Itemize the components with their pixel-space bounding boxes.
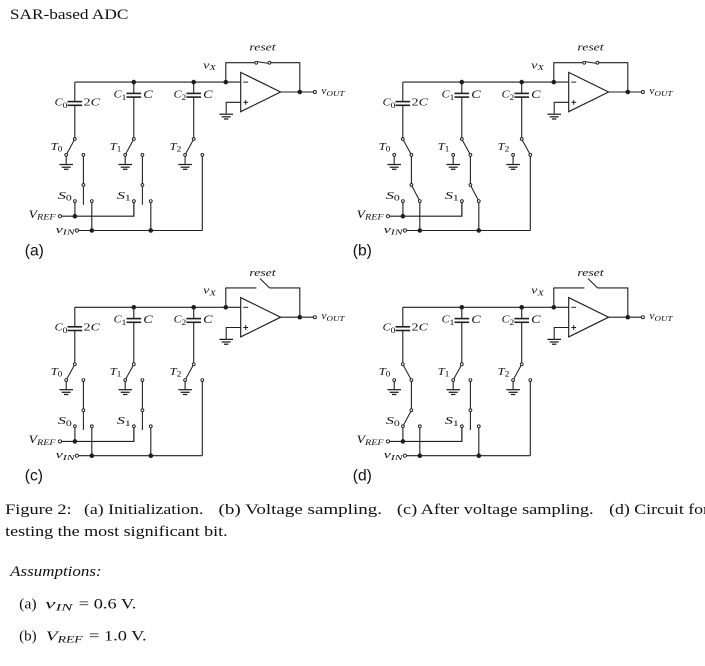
wire: C1 top stub (b)	[461, 82, 463, 93]
wire: C2 top stub (a)	[193, 82, 195, 93]
wire: S0 VREF contact stub (d)	[402, 428, 404, 442]
wire: reset switch to output node (feedback right) (c)	[270, 288, 300, 316]
capacitor C0 (a)	[68, 102, 83, 106]
svg-text:(c) After voltage sampling.: (c) After voltage sampling.	[397, 502, 594, 518]
switch S0 vIN-side contact (b)	[418, 200, 421, 203]
svg-text:= 0.6 V.: = 0.6 V.	[79, 597, 137, 613]
svg-text:C: C	[143, 313, 153, 326]
svg-text:reset: reset	[249, 43, 276, 54]
reset switch (closed) (b)	[583, 61, 599, 64]
ground symbol under T1 (d)	[446, 382, 460, 395]
svg-text:2C: 2C	[412, 97, 429, 109]
wire: T0 bus contact to S0 pole (a)	[82, 156, 84, 183]
svg-text:(b): (b)	[353, 243, 372, 260]
switch S1 lever (b)	[471, 186, 478, 199]
capacitor C2 (d)	[514, 319, 529, 323]
wire: vIN rail (b)	[407, 230, 531, 232]
switch T0 pole (a)	[73, 138, 76, 141]
svg-text:(a) Initialization.: (a) Initialization.	[84, 502, 203, 518]
svg-text:vX: vX	[531, 60, 544, 72]
switch T0 bus-side contact (b)	[410, 154, 413, 157]
wire: S0 VREF contact stub (c)	[74, 428, 76, 442]
switch S0 VREF-side contact (c)	[74, 425, 77, 428]
switch S1 lever (c)	[141, 412, 143, 430]
ground symbol under T1 (c)	[118, 382, 132, 395]
capacitor C0 (b)	[396, 102, 411, 106]
wire: reset switch to output node (feedback right) (b)	[599, 63, 628, 91]
switch T1 lever (c)	[126, 366, 133, 379]
junction: S1 vIN stub on vIN rail (c)	[149, 454, 153, 458]
wire: C0 top stub (a)	[74, 82, 76, 102]
wire: T2 bus contact down to vIN rail (c)	[201, 382, 203, 456]
switch S1 vIN-side contact (b)	[477, 200, 480, 203]
op-amp comparator (c)	[241, 298, 281, 337]
wire: T1 bus contact to S1 pole (c)	[141, 382, 143, 409]
svg-text:C: C	[203, 313, 213, 326]
switch T1 pole (b)	[460, 138, 463, 141]
svg-text:vIN: vIN	[384, 450, 404, 462]
terminal VREF (c)	[58, 440, 61, 443]
junction: S1 vIN stub on vIN rail (d)	[477, 454, 481, 458]
svg-text:C: C	[471, 88, 481, 101]
junction: C2 on top rail (b)	[520, 80, 524, 84]
switch S0 lever (c)	[82, 412, 84, 430]
wire: op-amp output to vOUT terminal (c)	[281, 316, 314, 318]
wire: S0 vIN contact stub (a)	[91, 203, 93, 231]
junction: S0 vIN stub on vIN rail (d)	[418, 454, 422, 458]
wire: top rail (node vX) of (b)	[403, 81, 569, 83]
wire: T2 bus contact down to vIN rail (b)	[529, 156, 531, 230]
svg-text:2C: 2C	[84, 322, 101, 334]
wire: T0 bus contact to S0 pole (c)	[82, 382, 84, 409]
wire: C1 top stub (c)	[133, 307, 135, 318]
wire: top rail (node vX) of (c)	[75, 306, 241, 308]
wire: S1 VREF contact stub (b)	[461, 203, 463, 217]
switch T1 bus-side contact (a)	[141, 154, 144, 157]
switch T0 bus-side contact (c)	[82, 379, 85, 382]
switch S0 pole (a)	[82, 184, 85, 187]
wire: vX to reset switch (feedback left) (b)	[554, 63, 583, 81]
ground symbol under T0 (b)	[387, 156, 401, 169]
switch S1 vIN-side contact (a)	[149, 200, 152, 203]
switch T2 ground-side contact (b)	[512, 154, 515, 157]
ground symbol under T2 (c)	[178, 382, 192, 395]
switch T2 ground-side contact (c)	[184, 379, 187, 382]
svg-text:reset: reset	[249, 268, 276, 279]
switch S1 vIN-side contact (c)	[149, 425, 152, 428]
switch S0 vIN-side contact (d)	[418, 425, 421, 428]
switch S1 pole (b)	[469, 184, 472, 187]
wire: S1 vIN contact stub (d)	[478, 428, 480, 456]
ground symbol under T0 (d)	[387, 382, 401, 395]
junction: C1 on top rail (c)	[132, 306, 136, 310]
wire: VREF rail (a)	[62, 203, 134, 217]
switch T2 lever (b)	[522, 140, 529, 153]
switch T2 pole (d)	[520, 363, 523, 366]
junction: C2 on top rail (d)	[520, 306, 524, 310]
switch S0 VREF-side contact (b)	[402, 200, 405, 203]
wire: C1 bottom stub to switch T1 (b)	[461, 97, 463, 138]
junction: C2 on top rail (c)	[192, 306, 196, 310]
switch S0 lever (b)	[412, 186, 419, 199]
wire: S0 VREF contact stub (a)	[74, 203, 76, 217]
reset switch (closed) (a)	[255, 61, 271, 64]
wire: C1 bottom stub to switch T1 (c)	[133, 322, 135, 363]
wire: C0 bottom stub to switch T0 (c)	[74, 331, 76, 363]
capacitor C1 (d)	[455, 319, 470, 323]
node: output / feedback junction (a)	[298, 90, 302, 94]
svg-text:(a): (a)	[25, 243, 44, 260]
wire: vIN rail (a)	[79, 230, 203, 232]
capacitor C2 (c)	[186, 319, 201, 323]
switch S1 VREF-side contact (b)	[461, 200, 464, 203]
switch T2 pole (a)	[192, 138, 195, 141]
wire: S1 VREF contact stub (c)	[133, 428, 135, 442]
wire: S0 VREF contact stub (b)	[402, 203, 404, 217]
switch S1 pole (c)	[141, 409, 144, 412]
terminal VREF (d)	[386, 440, 389, 443]
wire: S1 VREF contact stub (d)	[461, 428, 463, 442]
capacitor C0 (c)	[68, 327, 83, 331]
capacitor C2 (a)	[186, 93, 201, 97]
wire: reset switch to output node (feedback right) (d)	[598, 288, 628, 316]
ground symbol under T0 (a)	[59, 156, 73, 169]
wire: S1 vIN contact stub (a)	[150, 203, 152, 231]
node: output / feedback junction (b)	[626, 90, 630, 94]
svg-text:(b): (b)	[19, 628, 37, 644]
wire: T1 bus contact to S1 pole (b)	[469, 156, 471, 183]
terminal vOUT (b)	[641, 91, 644, 94]
switch S1 VREF-side contact (a)	[133, 200, 136, 203]
switch T0 pole (b)	[401, 138, 404, 141]
svg-text:(a): (a)	[19, 597, 37, 613]
svg-text:SAR-based ADC: SAR-based ADC	[10, 7, 128, 23]
svg-text:Assumptions:: Assumptions:	[9, 564, 102, 580]
svg-text:C: C	[203, 88, 213, 101]
wire: C2 bottom stub to switch T2 (d)	[521, 322, 523, 363]
terminal vOUT (a)	[313, 91, 316, 94]
ground symbol under T2 (a)	[178, 156, 192, 169]
junction: S1 vIN stub on vIN rail (a)	[149, 229, 153, 233]
wire: vIN rail (c)	[79, 455, 203, 457]
svg-text:(d): (d)	[353, 468, 372, 485]
wire: op-amp + input to ground (a)	[226, 102, 241, 106]
terminal vIN (d)	[403, 454, 406, 457]
junction: S0 vIN stub on vIN rail (c)	[90, 454, 94, 458]
svg-text:(c): (c)	[25, 468, 43, 485]
switch T2 pole (c)	[192, 363, 195, 366]
wire: C0 bottom stub to switch T0 (a)	[74, 105, 76, 137]
switch T2 pole (b)	[520, 138, 523, 141]
switch S1 pole (d)	[469, 409, 472, 412]
ground at op-amp + input (d)	[547, 331, 561, 344]
wire: VREF rail (d)	[390, 428, 462, 442]
switch S1 vIN-side contact (d)	[477, 425, 480, 428]
switch T1 ground-side contact (d)	[452, 379, 455, 382]
wire: C2 bottom stub to switch T2 (c)	[193, 322, 195, 363]
switch S1 lever (d)	[469, 412, 471, 430]
wire: T0 bus contact to S0 pole (d)	[410, 382, 412, 409]
switch T2 lever (a)	[186, 140, 193, 153]
wire: op-amp output to vOUT terminal (d)	[609, 316, 642, 318]
terminal vIN (c)	[75, 454, 78, 457]
junction: S0 vIN stub on vIN rail (b)	[418, 229, 422, 233]
capacitor C0 (d)	[396, 327, 411, 331]
svg-text:C: C	[471, 313, 481, 326]
svg-text:C: C	[531, 88, 541, 101]
terminal VREF (b)	[386, 215, 389, 218]
wire: top rail (node vX) of (d)	[403, 306, 569, 308]
switch T1 bus-side contact (d)	[469, 379, 472, 382]
switch S0 VREF-side contact (a)	[74, 200, 77, 203]
node: output / feedback junction (d)	[626, 315, 630, 319]
svg-text:C: C	[143, 88, 153, 101]
switch S0 pole (d)	[410, 409, 413, 412]
wire: op-amp + input to ground (d)	[554, 328, 569, 332]
junction: S0 VREF stub on VREF rail (d)	[401, 440, 405, 444]
capacitor C1 (b)	[455, 93, 470, 97]
wire: C2 bottom stub to switch T2 (a)	[193, 97, 195, 138]
switch T1 lever (d)	[454, 366, 461, 379]
wire: S1 vIN contact stub (c)	[150, 428, 152, 456]
ground symbol under T1 (b)	[446, 156, 460, 169]
junction: S0 VREF stub on VREF rail (b)	[401, 214, 405, 218]
wire: vX to reset switch (feedback left) (c)	[226, 288, 257, 306]
wire: vX to reset switch (feedback left) (d)	[554, 288, 585, 306]
node vX (c)	[224, 306, 228, 310]
terminal vOUT (c)	[313, 316, 316, 319]
junction: C1 on top rail (d)	[460, 306, 464, 310]
wire: T1 bus contact to S1 pole (d)	[469, 382, 471, 409]
junction: S1 vIN stub on vIN rail (b)	[477, 229, 481, 233]
op-amp comparator (d)	[569, 298, 609, 337]
wire: C0 top stub (c)	[74, 307, 76, 327]
wire: C1 bottom stub to switch T1 (d)	[461, 322, 463, 363]
switch T1 bus-side contact (c)	[141, 379, 144, 382]
wire: T2 bus contact down to vIN rail (d)	[529, 382, 531, 456]
wire: S0 vIN contact stub (d)	[419, 428, 421, 456]
wire: top rail (node vX) of (a)	[75, 81, 241, 83]
wire: C0 bottom stub to switch T0 (d)	[402, 331, 404, 363]
switch T1 pole (d)	[460, 363, 463, 366]
wire: VREF rail (c)	[62, 428, 134, 442]
svg-text:vX: vX	[531, 286, 544, 298]
wire: T2 bus contact down to vIN rail (a)	[201, 156, 203, 230]
switch T0 ground-side contact (c)	[65, 379, 68, 382]
node: output / feedback junction (c)	[298, 315, 302, 319]
terminal vIN (b)	[403, 229, 406, 232]
terminal vIN (a)	[75, 229, 78, 232]
svg-text:2C: 2C	[84, 97, 101, 109]
svg-text:vX: vX	[203, 286, 216, 298]
switch T0 ground-side contact (a)	[65, 154, 68, 157]
reset switch (open) (c)	[260, 279, 270, 288]
switch T1 pole (c)	[132, 363, 135, 366]
svg-text:vIN: vIN	[384, 225, 404, 237]
switch T2 bus-side contact (a)	[201, 154, 204, 157]
switch S0 lever (d)	[404, 412, 411, 425]
switch S0 VREF-side contact (d)	[402, 425, 405, 428]
capacitor C1 (c)	[127, 319, 142, 323]
wire: reset switch to output node (feedback right) (a)	[271, 63, 300, 91]
capacitor C1 (a)	[127, 93, 142, 97]
switch T1 pole (a)	[132, 138, 135, 141]
wire: C0 top stub (d)	[402, 307, 404, 327]
wire: C2 bottom stub to switch T2 (b)	[521, 97, 523, 138]
wire: op-amp output to vOUT terminal (b)	[609, 91, 642, 93]
switch T2 bus-side contact (d)	[529, 379, 532, 382]
svg-text:C: C	[531, 313, 541, 326]
switch T0 lever (b)	[404, 140, 411, 153]
wire: S1 VREF contact stub (a)	[133, 203, 135, 217]
op-amp comparator (b)	[569, 72, 609, 111]
svg-text:reset: reset	[577, 43, 604, 54]
reset switch (open) (d)	[588, 279, 598, 288]
switch T2 ground-side contact (a)	[184, 154, 187, 157]
switch T1 lever (a)	[126, 140, 133, 153]
switch T0 ground-side contact (b)	[393, 154, 396, 157]
terminal vOUT (d)	[641, 316, 644, 319]
wire: C1 top stub (d)	[461, 307, 463, 318]
wire: vX to reset switch (feedback left) (a)	[226, 63, 255, 81]
wire: C2 top stub (b)	[521, 82, 523, 93]
wire: T0 bus contact to S0 pole (b)	[410, 156, 412, 183]
wire: S0 vIN contact stub (b)	[419, 203, 421, 231]
terminal VREF (a)	[58, 215, 61, 218]
wire: C1 top stub (a)	[133, 82, 135, 93]
wire: C2 top stub (d)	[521, 307, 523, 318]
svg-text:(b) Voltage sampling.: (b) Voltage sampling.	[219, 502, 383, 518]
ground at op-amp + input (c)	[219, 331, 233, 344]
ground at op-amp + input (b)	[547, 106, 561, 119]
svg-text:vIN: vIN	[56, 450, 76, 462]
node vX (d)	[552, 306, 556, 310]
switch S0 vIN-side contact (a)	[90, 200, 93, 203]
svg-text:vX: vX	[203, 60, 216, 72]
switch T2 lever (d)	[514, 366, 521, 379]
svg-text:(d) Circuit for: (d) Circuit for	[609, 502, 705, 518]
switch S0 pole (c)	[82, 409, 85, 412]
switch T1 lever (b)	[463, 140, 470, 153]
ground at op-amp + input (a)	[219, 106, 233, 119]
switch T0 bus-side contact (a)	[82, 154, 85, 157]
switch T0 lever (a)	[67, 140, 74, 153]
wire: S1 vIN contact stub (b)	[478, 203, 480, 231]
ground symbol under T2 (b)	[506, 156, 520, 169]
ground symbol under T0 (c)	[59, 382, 73, 395]
wire: op-amp + input to ground (c)	[226, 328, 241, 332]
junction: S0 VREF stub on VREF rail (a)	[73, 214, 77, 218]
junction: S0 VREF stub on VREF rail (c)	[73, 440, 77, 444]
switch T0 bus-side contact (d)	[410, 379, 413, 382]
switch S1 VREF-side contact (d)	[461, 425, 464, 428]
switch T0 lever (d)	[404, 366, 411, 379]
svg-text:= 1.0 V.: = 1.0 V.	[89, 628, 147, 644]
svg-text:2C: 2C	[412, 322, 429, 334]
switch T0 ground-side contact (d)	[393, 379, 396, 382]
wire: VREF rail (b)	[390, 203, 462, 217]
switch T1 ground-side contact (c)	[124, 379, 127, 382]
switch S1 pole (a)	[141, 184, 144, 187]
wire: T1 bus contact to S1 pole (a)	[141, 156, 143, 183]
switch T2 lever (c)	[186, 366, 193, 379]
junction: C2 on top rail (a)	[192, 80, 196, 84]
junction: S0 vIN stub on vIN rail (a)	[90, 229, 94, 233]
node vX (b)	[552, 80, 556, 84]
switch T0 pole (d)	[401, 363, 404, 366]
switch S1 VREF-side contact (c)	[133, 425, 136, 428]
switch S0 lever (a)	[82, 187, 84, 205]
ground symbol under T2 (d)	[506, 382, 520, 395]
switch T0 lever (c)	[67, 366, 74, 379]
wire: C2 top stub (c)	[193, 307, 195, 318]
switch T1 ground-side contact (b)	[452, 154, 455, 157]
op-amp comparator (a)	[241, 72, 281, 111]
ground symbol under T1 (a)	[118, 156, 132, 169]
wire: S0 vIN contact stub (c)	[91, 428, 93, 456]
switch T1 bus-side contact (b)	[469, 154, 472, 157]
svg-text:Figure 2:: Figure 2:	[5, 502, 72, 518]
switch T2 bus-side contact (c)	[201, 379, 204, 382]
switch S1 lever (a)	[141, 187, 143, 205]
switch T2 ground-side contact (d)	[512, 379, 515, 382]
switch T2 bus-side contact (b)	[529, 154, 532, 157]
switch S0 vIN-side contact (c)	[90, 425, 93, 428]
junction: C1 on top rail (b)	[460, 80, 464, 84]
wire: C1 bottom stub to switch T1 (a)	[133, 97, 135, 138]
wire: C0 top stub (b)	[402, 82, 404, 102]
svg-text:reset: reset	[577, 268, 604, 279]
switch S0 pole (b)	[410, 184, 413, 187]
wire: C0 bottom stub to switch T0 (b)	[402, 105, 404, 137]
wire: op-amp + input to ground (b)	[554, 102, 569, 106]
wire: vIN rail (d)	[407, 455, 531, 457]
svg-text:testing the most significant b: testing the most significant bit.	[5, 524, 228, 540]
svg-text:vIN: vIN	[56, 225, 76, 237]
capacitor C2 (b)	[514, 93, 529, 97]
switch T1 ground-side contact (a)	[124, 154, 127, 157]
node vX (a)	[224, 80, 228, 84]
switch T0 pole (c)	[73, 363, 76, 366]
junction: C1 on top rail (a)	[132, 80, 136, 84]
wire: op-amp output to vOUT terminal (a)	[281, 91, 314, 93]
